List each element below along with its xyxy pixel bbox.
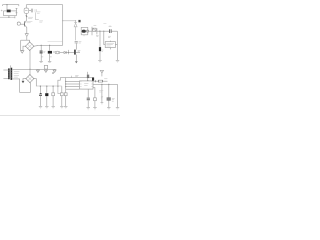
node out2 j1 bbox=[101, 84, 102, 85]
transformer T1 primary winding bbox=[8, 68, 10, 79]
ground GND6 bbox=[36, 70, 39, 72]
wire ic bus bbox=[65, 78, 67, 90]
label C13 value bbox=[112, 98, 115, 101]
node bottom rail j1 bbox=[40, 86, 41, 87]
lamp LP1 oval bbox=[55, 51, 60, 54]
wire T1 primary top lead bbox=[3, 69, 8, 71]
trimmer VR1 wiper bbox=[93, 28, 96, 31]
wire end tap stub bbox=[54, 68, 56, 71]
label C2 value bbox=[43, 52, 45, 53]
ground GND14 bbox=[93, 107, 97, 109]
wire riser down branch bbox=[58, 86, 61, 93]
wire input line left bbox=[0, 16, 15, 18]
wire ic pin3 bbox=[66, 86, 80, 88]
wire B1 loop bottom bbox=[4, 11, 17, 16]
capacitor C11 on U3 corner bbox=[92, 77, 94, 80]
wire R2 bottom lead bbox=[61, 96, 63, 107]
wire ic pin4 bbox=[66, 88, 80, 90]
node D3 right vertex bbox=[33, 78, 34, 79]
capacitor C2 plates bbox=[40, 51, 43, 52]
ground GND1 bbox=[21, 51, 24, 54]
wire ic pin2 bbox=[66, 83, 80, 85]
wire bus bottom lead bbox=[65, 89, 67, 93]
bridge D1 inner diodes bbox=[27, 44, 33, 49]
node junction below MK2 bbox=[26, 15, 27, 16]
wire LS1 to VR1 bbox=[89, 30, 92, 32]
wire top rail left segment bbox=[3, 5, 19, 6]
fuse F1 box bbox=[44, 65, 47, 69]
ground GND15 bbox=[87, 107, 91, 109]
capacitor C13 plates bbox=[107, 98, 111, 99]
wire C10 bottom stub bbox=[87, 78, 89, 81]
trimmer VR1 frame bbox=[91, 27, 93, 35]
diode D2 cathode bar bbox=[65, 51, 67, 53]
node bottom rail j3 bbox=[52, 86, 53, 87]
node regulator feed bbox=[103, 31, 104, 32]
ground GND5 bbox=[116, 59, 119, 61]
wire D2 to C4 bar bbox=[66, 52, 74, 54]
wire U3 out3 bbox=[93, 88, 95, 98]
wire VR1 right frame bbox=[96, 28, 98, 34]
label Q1 value text bbox=[27, 17, 43, 23]
bridge D3 inner diodes bbox=[27, 76, 32, 81]
speaker LS1 loop bbox=[81, 27, 88, 35]
op-amp U3 box bbox=[80, 81, 94, 89]
node D1 left vertex bbox=[25, 46, 26, 47]
wire C8 top lead bbox=[39, 86, 41, 93]
wire B1 left lead bbox=[4, 10, 7, 12]
wire C10 top stub bbox=[87, 72, 89, 75]
wire out2 branch down bbox=[101, 84, 103, 102]
capacitor C10 plates bbox=[86, 75, 89, 79]
label C7 plus bbox=[109, 25, 112, 27]
capacitor C8 plates bbox=[40, 92, 42, 95]
microphone MK2 inner marks bbox=[25, 10, 27, 12]
node D3 top vertex bbox=[29, 74, 30, 75]
wire right edge drop bbox=[116, 31, 118, 60]
arrow to next stage bbox=[75, 61, 78, 63]
label C5 value bbox=[79, 42, 82, 43]
wire D3 left lead bbox=[23, 79, 26, 81]
node junction on input line bbox=[8, 17, 9, 18]
wire T1 secondary top bbox=[12, 68, 56, 70]
wire U2 output bbox=[115, 44, 117, 46]
wire C12 bottom lead bbox=[87, 100, 89, 107]
label T1 value bbox=[14, 72, 20, 77]
capacitor C5 plates bbox=[75, 41, 78, 43]
wire ground tap stub bbox=[37, 68, 39, 71]
node collector junction bbox=[26, 16, 27, 17]
label C4 value bbox=[78, 50, 81, 51]
wire R2 top lead bbox=[61, 86, 63, 93]
wire ic top net bbox=[60, 77, 92, 79]
wire zener feed bbox=[63, 20, 76, 22]
node rail junction C3 bbox=[49, 45, 50, 46]
wire ic pin1 bbox=[66, 80, 80, 82]
wire U2 bottom stub bbox=[109, 48, 111, 50]
wire R1 bottom lead bbox=[52, 96, 54, 107]
wire R1 top lead bbox=[52, 86, 54, 93]
node ic bus j1 bbox=[65, 83, 66, 84]
capacitor C6 body bbox=[99, 47, 101, 51]
wire bridge left drop bbox=[20, 40, 22, 50]
wire C1b lead down bbox=[36, 12, 39, 19]
wire U3 out1 bbox=[93, 80, 98, 82]
ground GND3 bbox=[48, 60, 51, 62]
wire D3 right lead bbox=[34, 79, 36, 87]
wire node to arrow bbox=[75, 55, 77, 62]
node zener feed right bbox=[75, 20, 76, 21]
node branch to C6 bbox=[99, 31, 100, 32]
node D1 top vertex bbox=[29, 42, 30, 43]
label VR1 bottom bbox=[96, 35, 99, 36]
transistor Q1 emitter lead bbox=[25, 25, 27, 33]
wire D1 left to ground bbox=[21, 46, 26, 50]
speaker LS1 body bbox=[82, 30, 86, 33]
node zener feed left bbox=[62, 20, 63, 21]
label wire net name bbox=[37, 12, 41, 13]
wire bridge column bbox=[29, 50, 31, 74]
capacitor C9 body bbox=[45, 93, 48, 96]
label C2 flag bbox=[41, 56, 43, 58]
capacitor C7 plates bbox=[110, 29, 112, 33]
ground GND8 bbox=[39, 105, 42, 107]
label B1 plus mark bbox=[1, 10, 3, 12]
node out2 j2 bbox=[108, 84, 109, 85]
label ic top net bbox=[75, 76, 78, 77]
label C7 value bbox=[108, 36, 111, 37]
arrow current direction bbox=[25, 34, 28, 37]
transformer T1 winding ridges bbox=[8, 71, 12, 78]
capacitor C12 plates bbox=[87, 97, 90, 100]
connector post J2 bbox=[14, 16, 16, 18]
wire R3 bottom lead bbox=[65, 96, 67, 107]
ground GND2 bbox=[39, 60, 42, 62]
transistor Q1 collector lead bbox=[25, 20, 27, 23]
wire T1 secondary bottom bbox=[12, 79, 30, 92]
node ic bus j2 bbox=[65, 86, 66, 87]
wire U3 out2 bbox=[93, 83, 118, 85]
wire top rail right segment bbox=[26, 4, 62, 6]
wire C5 to node bbox=[75, 43, 77, 49]
wire C3 top lead bbox=[49, 45, 51, 50]
bridge rectifier D1 diamond bbox=[26, 42, 34, 50]
resistor R4 end caps bbox=[99, 80, 103, 82]
label net A bbox=[52, 72, 54, 73]
wire VR1 to C7 bbox=[97, 30, 109, 32]
wire T1 primary bottom lead bbox=[3, 78, 8, 80]
ground GND16 bbox=[107, 107, 110, 109]
wire bottom rail bbox=[36, 85, 62, 87]
wire stub rail to B1 bbox=[6, 5, 8, 10]
ground GND18 small bbox=[101, 102, 104, 104]
wire B1 right lead bbox=[11, 10, 17, 12]
wire right edge lower drop bbox=[117, 84, 119, 107]
wire riser to ic row bbox=[58, 78, 60, 87]
ground GND6c bbox=[53, 70, 56, 72]
ground GND4 bbox=[98, 59, 102, 61]
capacitor C1 plates bbox=[31, 9, 32, 13]
wire LS1 bottom stub bbox=[83, 35, 85, 36]
wire regulator feed drop bbox=[104, 31, 105, 44]
wire C9 bottom lead bbox=[46, 96, 48, 106]
wire bridge top link bbox=[21, 39, 30, 41]
wire C7 to right edge bbox=[111, 30, 117, 32]
wire C3 bottom lead bbox=[49, 54, 51, 62]
ground GND6b bbox=[44, 70, 47, 72]
connector J1 bracket bbox=[16, 8, 18, 15]
label net above bbox=[103, 23, 106, 25]
ground GND17 bbox=[116, 107, 119, 109]
node junction on rail at x7 bbox=[6, 4, 7, 5]
ground arrow GND7 bbox=[22, 81, 25, 83]
label D1 dark text bbox=[78, 20, 80, 22]
zener diode ZD1 triangle bbox=[74, 23, 77, 27]
label rail net bbox=[48, 40, 63, 42]
capacitor C1b plates faint bbox=[35, 9, 36, 12]
node D1 bottom vertex bbox=[29, 50, 30, 51]
battery B1 body bbox=[7, 10, 11, 13]
label C3 value bbox=[53, 51, 55, 52]
wire base lead bbox=[20, 23, 24, 25]
wire D1 top stub bbox=[29, 40, 31, 42]
bridge rectifier D3 diamond bbox=[26, 75, 34, 83]
wire C2 top lead bbox=[40, 45, 42, 50]
regulator U2 box bbox=[105, 42, 115, 48]
ground GND13 bbox=[64, 105, 68, 107]
wire U2 top tick bbox=[109, 41, 111, 42]
ground GND12 above ic bbox=[100, 70, 103, 73]
wire GND12 stub bbox=[101, 73, 103, 77]
resistor R4 body bbox=[98, 80, 102, 82]
trimmer VR1 body bbox=[93, 28, 96, 31]
label branch value bbox=[101, 96, 103, 99]
node out1 tick bbox=[94, 80, 96, 82]
wire C6 drop bbox=[99, 31, 101, 47]
node D3 bottom vertex bbox=[29, 82, 30, 83]
label U2 text bbox=[106, 43, 114, 46]
zener diode ZD1 cathode bar bbox=[74, 22, 77, 24]
wire C2 bottom lead bbox=[40, 54, 42, 62]
wire MK2 right stub bbox=[29, 10, 32, 12]
node ic bus j0 bbox=[65, 81, 66, 82]
frame border bottom bbox=[0, 115, 120, 117]
wire C4 right lead bbox=[76, 52, 80, 54]
wire R5 bottom lead bbox=[94, 101, 96, 108]
label C6 value bbox=[102, 50, 104, 51]
wire C8 bottom lead bbox=[39, 96, 41, 106]
node secondary junction bbox=[29, 69, 30, 70]
label R4 bbox=[104, 78, 107, 80]
wire C13 drop bbox=[108, 84, 110, 97]
resistor R5 box bbox=[94, 98, 97, 101]
wire rail drop to MK2 bbox=[25, 5, 27, 16]
connector tick on top net bbox=[71, 76, 73, 78]
node mid row junction bbox=[68, 52, 69, 53]
label VR1 bbox=[94, 25, 97, 27]
wire down from MK2 node bbox=[25, 16, 27, 20]
wire T1 top tick bbox=[10, 65, 12, 67]
node D3 left vertex bbox=[25, 78, 26, 79]
microphone MK2 oval bbox=[24, 8, 29, 13]
resistor R2 box bbox=[61, 93, 64, 96]
wire R4 right lead bbox=[103, 80, 108, 82]
capacitor C3 body bbox=[48, 51, 52, 54]
label R5 value bbox=[99, 91, 103, 92]
wire positive rail bbox=[38, 44, 63, 46]
wire input stub up bbox=[8, 16, 10, 18]
node bottom rail j2 bbox=[46, 86, 47, 87]
ground GND10 bbox=[52, 105, 55, 107]
wire LS1 right side bbox=[87, 27, 89, 35]
transformer T1 secondary winding bbox=[11, 68, 13, 80]
connector tick mid row bbox=[67, 50, 69, 54]
node D1 right vertex bbox=[33, 46, 34, 47]
wire ZD1 down bbox=[75, 21, 77, 41]
node C10 junction bbox=[87, 80, 88, 81]
wire arrow to bridge bbox=[26, 37, 28, 41]
node bottom rail j4 bbox=[57, 86, 58, 87]
ground GND11 bbox=[60, 105, 63, 107]
resistor R1 box bbox=[52, 93, 55, 96]
capacitor C4 negative plate bbox=[74, 50, 76, 55]
wire C6 to ground bbox=[99, 51, 101, 60]
lamp LP1 contacts bbox=[55, 51, 58, 54]
diode D2 triangle bbox=[64, 51, 66, 53]
transistor Q1 base bar bbox=[23, 21, 26, 26]
node rail junction C2 bbox=[41, 45, 42, 46]
label U3 text bbox=[80, 81, 93, 89]
wire C9 top lead bbox=[46, 86, 48, 93]
microphone MK1 circle bbox=[17, 22, 20, 25]
wire U3 bottom lead bbox=[87, 89, 89, 98]
ground GND9 bbox=[45, 105, 48, 107]
wire right-edge drop from top rail bbox=[62, 5, 64, 46]
terminal circle bbox=[87, 30, 89, 32]
wire D1 right to rail bbox=[34, 45, 38, 48]
resistor R3 box bbox=[64, 93, 67, 96]
wire LP1 to D2 bbox=[60, 52, 64, 54]
wire C13 bottom lead bbox=[108, 101, 110, 108]
label C3 flag bbox=[50, 56, 52, 58]
